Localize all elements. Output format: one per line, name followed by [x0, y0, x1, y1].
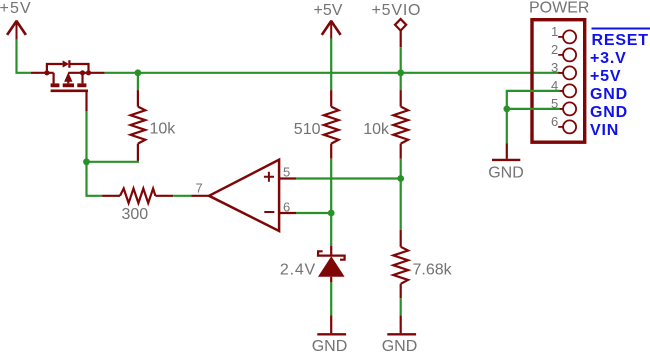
svg-text:2.4V: 2.4V	[280, 262, 316, 279]
pin number 5	[283, 164, 290, 179]
op-amp minus input mark	[264, 211, 274, 213]
wire op-amp pin5 stub	[279, 177, 401, 179]
op-amp U1 triangle	[209, 160, 279, 231]
svg-text:RESET: RESET	[592, 32, 649, 49]
supply +5V label top-left	[0, 0, 32, 17]
wire Q1 drain pin stub (red)	[31, 72, 54, 74]
label GND under R5	[382, 338, 418, 353]
svg-text:+5V: +5V	[590, 68, 621, 85]
wire pin4 GND (green)	[507, 91, 564, 109]
wire R1 bottom to gate node	[87, 144, 140, 162]
label GND (pin5)	[590, 104, 628, 121]
label R4 value 10k	[363, 121, 390, 138]
svg-text:+5V: +5V	[0, 0, 32, 17]
svg-text:POWER: POWER	[529, 0, 589, 17]
label GND right	[488, 165, 524, 182]
svg-text:GND: GND	[382, 338, 418, 353]
wire pin5 junction down to R5	[400, 179, 402, 247]
label +5V (pin3)	[590, 68, 621, 85]
resistor R1 10k (left)	[131, 107, 146, 144]
ground symbol under R5	[387, 333, 416, 335]
label RESET overline	[592, 28, 650, 30]
connector JP1 outline box	[532, 20, 585, 143]
wire +5VIO down to main wire	[400, 31, 402, 73]
wire zener cathode stub	[330, 246, 332, 256]
supply +5V arrow symbol (middle)	[322, 20, 341, 38]
ground symbol right	[492, 159, 520, 161]
svg-text:3: 3	[551, 60, 558, 75]
label R1 value 10k	[150, 121, 177, 138]
connector pin 1 pad	[551, 24, 576, 43]
pin number 6	[283, 200, 290, 215]
supply +5VIO diamond symbol	[395, 19, 406, 31]
label +3.V	[590, 50, 627, 67]
wire R2 right stub to op-amp	[155, 195, 209, 197]
label R2 value 300	[122, 206, 149, 223]
label RESET	[592, 32, 649, 49]
transistor Q1 P-MOSFET body	[51, 73, 105, 86]
svg-text:2: 2	[551, 42, 558, 57]
transistor Q1 body diode loop	[47, 60, 89, 73]
svg-text:7: 7	[196, 181, 203, 196]
svg-text:VIN: VIN	[590, 122, 619, 139]
wire +5V arrow down to R3 (green over crossing)	[330, 39, 332, 107]
wire R1 top stub	[137, 73, 139, 107]
zener diode D1 2.4V	[317, 251, 346, 276]
junction dot Q1 left terminal	[44, 70, 49, 75]
junction dot Q1 right terminal a	[80, 70, 85, 75]
label R3 value 510	[294, 121, 321, 138]
resistor R4 10k (right)	[393, 107, 408, 144]
svg-text:1: 1	[551, 24, 558, 39]
junction node at R1 top	[135, 69, 142, 76]
wire R3 bottom down to zener junction	[330, 144, 332, 246]
svg-text:GND: GND	[488, 165, 524, 182]
resistor R3 510	[324, 107, 339, 144]
junction node pin4/pin5 GND	[503, 106, 510, 113]
svg-text:5: 5	[283, 164, 290, 179]
wire from +5V arrow to Q1 (green L)	[17, 40, 31, 73]
wire pin3 red tick	[560, 72, 564, 74]
svg-text:10k: 10k	[363, 121, 390, 138]
wire gate vertical (green)	[87, 111, 103, 196]
ground symbol under zener	[317, 333, 346, 335]
svg-text:GND: GND	[590, 86, 628, 103]
junction node pin6 / zener	[328, 210, 335, 217]
connector pin 4 pad	[551, 78, 576, 97]
junction node at +5VIO drop	[397, 69, 404, 76]
wire GND drop (green then red)	[506, 109, 508, 159]
svg-text:510: 510	[294, 121, 321, 138]
svg-text:7.68k: 7.68k	[413, 262, 453, 279]
svg-text:10k: 10k	[150, 121, 177, 138]
wire zener anode to GND	[330, 277, 332, 333]
connector pin 6 pad	[551, 114, 576, 133]
svg-text:+5V: +5V	[314, 2, 343, 19]
connector pin 5 pad	[551, 96, 576, 115]
label GND under zener	[312, 338, 348, 353]
resistor R2 300	[120, 189, 155, 204]
connector pin 2 pad	[551, 42, 576, 61]
supply +5V label (middle)	[314, 2, 343, 19]
label GND (pin4)	[590, 86, 628, 103]
wire main +5V horizontal to connector pin 3	[105, 72, 560, 74]
svg-text:+3.V: +3.V	[590, 50, 627, 67]
connector pin 3 pad	[551, 60, 576, 79]
wire op-amp pin6 stub	[279, 212, 331, 214]
label R5 value 7.68k	[413, 262, 453, 279]
supply +5VIO label	[372, 2, 422, 19]
junction dot Q1 right terminal b	[86, 70, 91, 75]
label VIN (pin6)	[590, 122, 619, 139]
wire main to R4 top	[400, 73, 402, 107]
wire R2 left pin stub	[102, 195, 120, 197]
wire pin5 GND (green)	[507, 108, 564, 110]
transistor Q1 gate bar	[51, 90, 88, 93]
svg-text:GND: GND	[312, 338, 348, 353]
pin number 7	[196, 181, 203, 196]
label POWER header title	[529, 0, 589, 17]
svg-text:6: 6	[551, 114, 558, 129]
junction node pin5 / divider	[397, 175, 404, 182]
wire R5 bottom to GND	[400, 284, 402, 333]
supply +5V arrow symbol	[7, 20, 26, 39]
svg-text:GND: GND	[590, 104, 628, 121]
wire R4 bottom to pin5 junction	[400, 144, 402, 179]
svg-text:+5VIO: +5VIO	[372, 2, 422, 19]
svg-text:300: 300	[122, 206, 149, 223]
junction node gate / R1 bottom	[83, 158, 90, 165]
label D1 value 2.4V	[280, 262, 316, 279]
op-amp plus input mark	[264, 172, 274, 182]
transistor Q1 gate pin wire (red)	[85, 91, 87, 111]
resistor R5 7.68k	[393, 247, 408, 284]
